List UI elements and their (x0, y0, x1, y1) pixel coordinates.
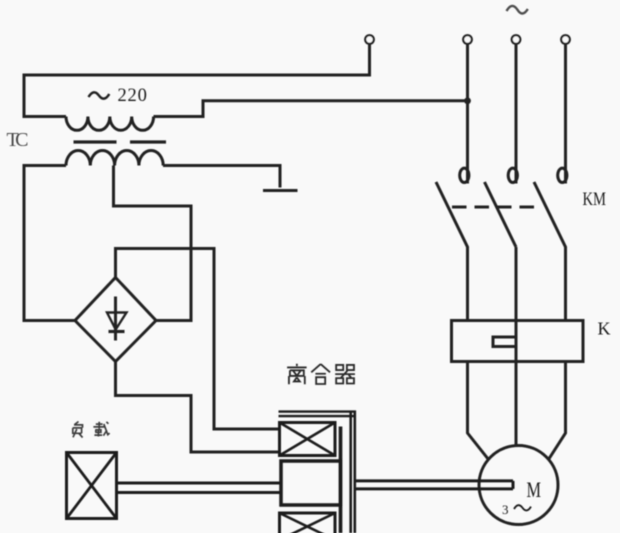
svg-text:M: M (527, 477, 542, 502)
svg-text:TC: TC (7, 129, 29, 151)
svg-text:KM: KM (583, 189, 607, 210)
svg-text:3: 3 (502, 502, 509, 517)
svg-text:K: K (598, 319, 611, 339)
svg-text:220: 220 (118, 86, 148, 106)
